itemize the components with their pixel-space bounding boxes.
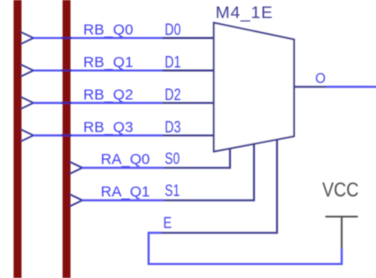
wire crossing bus bar A row D0: [62, 37, 72, 39]
bus bar A (second vertical red bus): [63, 0, 71, 278]
wire pin leader D1: [163, 70, 214, 72]
power symbol VCC: [325, 216, 357, 218]
bus bar B (left vertical red bus): [14, 0, 22, 278]
wire net O: [326, 86, 376, 88]
wire net RB_Q1: [33, 69, 162, 71]
bus tap arrow RB_Q3: [21, 129, 34, 141]
svg-text:RB_Q1: RB_Q1: [83, 54, 133, 71]
wire net RA_Q0: [82, 167, 164, 169]
wire crossing bus bar A row D2: [62, 102, 72, 104]
wire net RB_Q0: [33, 37, 162, 39]
svg-text:D3: D3: [165, 119, 181, 137]
wire pin leader D2: [163, 102, 214, 104]
wire pin leader S1: [164, 144, 254, 201]
bus tap arrow RB_Q2: [21, 97, 34, 109]
svg-text:S0: S0: [165, 150, 180, 168]
wire net RA_Q1: [82, 199, 164, 201]
svg-text:RB_Q2: RB_Q2: [83, 86, 133, 103]
bus tap arrow RB_Q0: [21, 32, 34, 44]
bus tap arrow RB_Q1: [21, 65, 34, 77]
svg-text:M4_1E: M4_1E: [216, 3, 273, 22]
wire pin leader O: [294, 86, 326, 88]
wire pin leader E: [162, 139, 278, 232]
wire pin leader D0: [163, 37, 214, 39]
svg-text:VCC: VCC: [322, 179, 359, 201]
wire crossing bus bar A row D1: [62, 69, 72, 71]
svg-text:E: E: [163, 215, 172, 232]
svg-text:D2: D2: [165, 86, 181, 104]
svg-text:RA_Q0: RA_Q0: [101, 151, 150, 168]
wire pin leader S0: [164, 148, 230, 168]
wire crossing bus bar A row D3: [62, 134, 72, 136]
bus tap arrow RA_Q1: [70, 194, 83, 206]
svg-text:RB_Q0: RB_Q0: [83, 21, 133, 38]
op-amp style mux body U1 M4_1E: [214, 23, 294, 152]
svg-text:RB_Q3: RB_Q3: [83, 119, 133, 136]
wire net RB_Q2: [33, 102, 162, 104]
svg-text:O: O: [315, 71, 325, 87]
wire pin leader D3: [163, 134, 214, 136]
wire net RB_Q3: [33, 134, 162, 136]
svg-text:D0: D0: [165, 21, 181, 39]
svg-text:RA_Q1: RA_Q1: [101, 184, 150, 201]
svg-text:S1: S1: [165, 182, 180, 200]
bus tap arrow RA_Q0: [70, 162, 83, 174]
svg-text:D1: D1: [165, 54, 181, 72]
wire net VCC to E: [149, 233, 342, 264]
